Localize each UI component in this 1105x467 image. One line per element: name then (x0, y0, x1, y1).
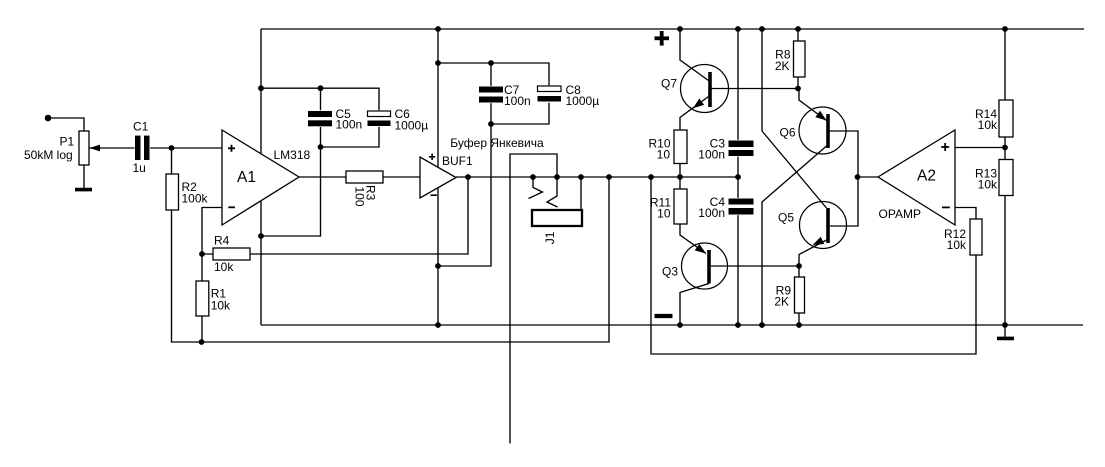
svg-text:Q3: Q3 (662, 265, 678, 279)
svg-text:Q6: Q6 (780, 126, 796, 140)
svg-text:1000µ: 1000µ (395, 119, 429, 133)
svg-text:100n: 100n (336, 118, 363, 132)
svg-text:10k: 10k (211, 299, 231, 313)
svg-text:100n: 100n (504, 94, 531, 108)
svg-text:100n: 100n (698, 206, 725, 220)
svg-text:100: 100 (352, 187, 366, 207)
svg-text:2K: 2K (774, 295, 789, 309)
svg-text:10: 10 (657, 148, 671, 162)
svg-text:1u: 1u (133, 161, 146, 175)
svg-text:Q5: Q5 (778, 211, 794, 225)
svg-text:J1: J1 (543, 231, 557, 244)
svg-text:10k: 10k (978, 118, 998, 132)
svg-text:100k: 100k (182, 192, 209, 206)
svg-text:P1: P1 (60, 135, 75, 149)
svg-text:10k: 10k (978, 178, 998, 192)
svg-text:2K: 2K (775, 59, 790, 73)
svg-text:A2: A2 (917, 168, 936, 185)
svg-text:C1: C1 (133, 120, 149, 134)
svg-text:LM318: LM318 (274, 148, 311, 162)
svg-text:50kM log: 50kM log (24, 148, 73, 162)
svg-text:Буфер Янкевича: Буфер Янкевича (450, 136, 544, 150)
svg-text:10k: 10k (214, 260, 234, 274)
svg-text:100n: 100n (698, 148, 725, 162)
svg-text:R4: R4 (214, 234, 230, 248)
svg-text:OPAMP: OPAMP (879, 207, 921, 221)
svg-text:1000µ: 1000µ (566, 94, 600, 108)
svg-text:BUF1: BUF1 (442, 154, 473, 168)
svg-text:10k: 10k (947, 238, 967, 252)
svg-text:A1: A1 (237, 169, 256, 186)
svg-text:Q7: Q7 (661, 77, 677, 91)
svg-text:10: 10 (657, 207, 671, 221)
